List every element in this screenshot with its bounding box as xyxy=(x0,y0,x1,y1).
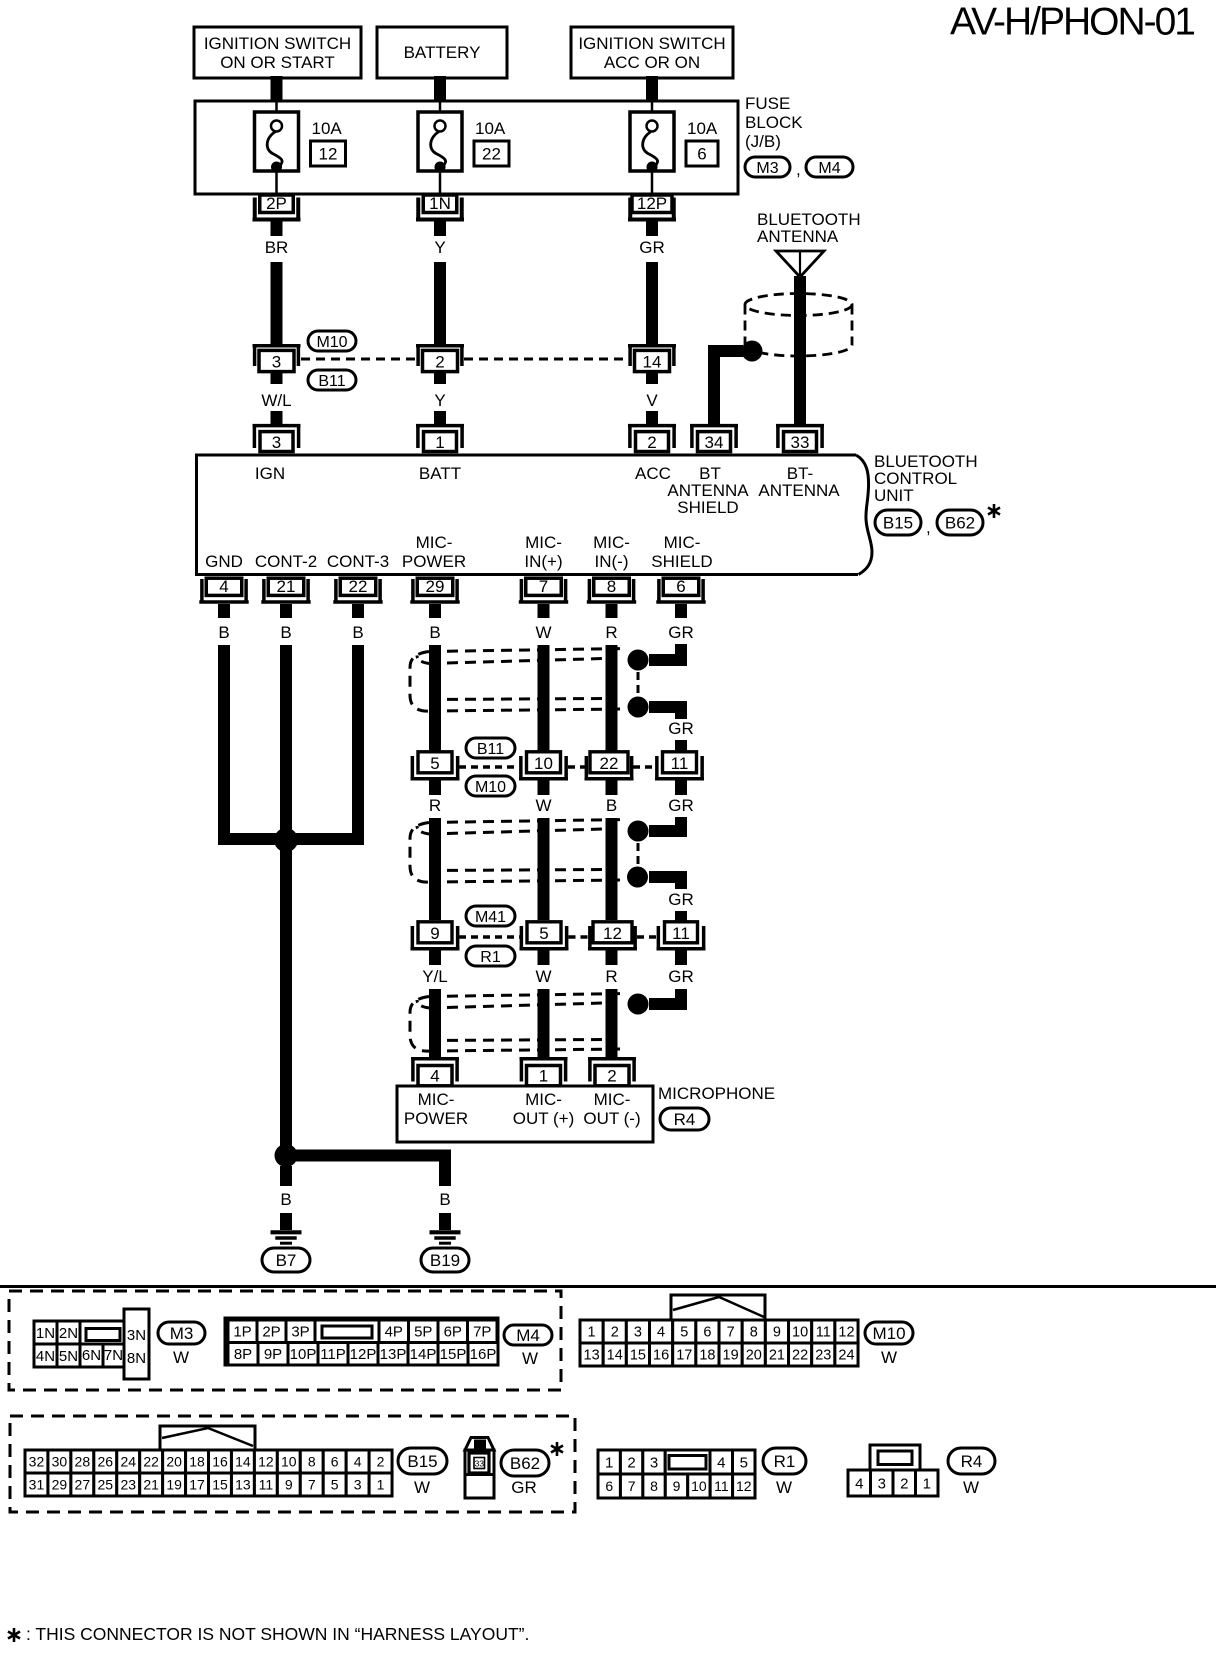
wire stub R below row1 xyxy=(429,781,441,796)
wire stub pin 681 xyxy=(675,604,687,618)
svg-text:2P: 2P xyxy=(266,194,287,213)
pin 34 BT antenna shield xyxy=(690,426,738,452)
node shield dot 1a xyxy=(628,650,649,671)
wire W row1-row2 xyxy=(538,818,550,920)
connector M4 xyxy=(806,157,853,177)
connector M3 oval 2 xyxy=(158,1322,205,1344)
pin 6 MIC-SHIELD xyxy=(656,577,705,602)
svg-text:5: 5 xyxy=(740,1454,748,1471)
label GND xyxy=(205,552,243,571)
pin 2 ACC xyxy=(628,426,676,452)
svg-text:W: W xyxy=(963,1478,979,1497)
node shield ground dot xyxy=(742,341,763,362)
svg-text:B: B xyxy=(606,796,617,815)
wire GND B xyxy=(224,645,281,839)
connector 2P xyxy=(253,194,301,220)
svg-text:B: B xyxy=(429,623,440,642)
wire shield 1b xyxy=(649,707,681,719)
svg-text:30: 30 xyxy=(52,1454,68,1470)
asterisk 1 xyxy=(988,504,1000,518)
label MIC-POWER mic xyxy=(404,1090,468,1128)
label B xyxy=(218,623,229,642)
svg-text:16: 16 xyxy=(653,1348,669,1364)
wire CONT-3 B xyxy=(291,645,358,839)
label BR xyxy=(265,238,289,257)
svg-text:17: 17 xyxy=(189,1477,205,1493)
label MIC-POWER xyxy=(402,533,466,571)
svg-text:GR: GR xyxy=(639,238,665,257)
svg-text:6P: 6P xyxy=(444,1324,462,1341)
svg-text:CONT-2: CONT-2 xyxy=(255,552,317,571)
wire to B19 ground xyxy=(286,1156,445,1187)
wire stub below 2 xyxy=(434,373,446,384)
wire stub B below row1 xyxy=(606,781,618,796)
dashed link 12-11 xyxy=(637,935,657,939)
comma 2 xyxy=(926,518,931,537)
label ACC xyxy=(635,464,671,483)
wire V xyxy=(646,411,658,425)
svg-text:BLOCK: BLOCK xyxy=(745,113,803,132)
svg-text:14P: 14P xyxy=(410,1346,437,1363)
svg-text:3: 3 xyxy=(272,353,281,372)
label MIC-OUT+ mic xyxy=(513,1090,575,1128)
svg-text:31: 31 xyxy=(29,1477,45,1493)
svg-text:33: 33 xyxy=(475,1459,485,1469)
svg-text:B: B xyxy=(218,623,229,642)
connector M10 oval 3 xyxy=(865,1322,913,1344)
svg-text:13P: 13P xyxy=(380,1346,407,1363)
wire GR down 2 xyxy=(675,989,687,999)
svg-text:34: 34 xyxy=(705,433,724,452)
wire battery to fuse block xyxy=(434,76,446,102)
svg-text:21: 21 xyxy=(143,1477,159,1493)
wire stub pin 435 xyxy=(429,604,441,618)
connector 3 harness M10/B11 xyxy=(253,346,301,372)
label BATT xyxy=(419,464,461,483)
svg-text:3: 3 xyxy=(272,433,281,452)
svg-text:M41: M41 xyxy=(475,909,506,926)
pin 4 GND xyxy=(199,577,248,602)
connector view M3 grid xyxy=(34,1309,149,1379)
connector 2 harness M10/B11 xyxy=(416,346,464,372)
label Y xyxy=(434,238,445,257)
svg-text:GR: GR xyxy=(668,719,694,738)
svg-text:IGN: IGN xyxy=(255,464,285,483)
svg-text:13: 13 xyxy=(584,1348,600,1364)
svg-text:6: 6 xyxy=(697,145,706,164)
wire shield 3 xyxy=(649,991,681,1004)
connector B11 oval 2 xyxy=(466,738,515,758)
svg-text:2: 2 xyxy=(611,1325,619,1341)
svg-text:7: 7 xyxy=(628,1478,636,1494)
node shield dot 2a xyxy=(628,821,649,842)
svg-text:BR: BR xyxy=(265,238,289,257)
connector B15 oval xyxy=(875,510,921,535)
svg-text:6N: 6N xyxy=(82,1347,101,1364)
svg-text:B15: B15 xyxy=(883,514,913,533)
svg-text:B7: B7 xyxy=(276,1251,297,1270)
wire col 435 to row1 xyxy=(429,645,441,752)
svg-text:7: 7 xyxy=(727,1325,735,1341)
svg-text:ANTENNA: ANTENNA xyxy=(758,481,840,500)
svg-text:10: 10 xyxy=(691,1478,707,1494)
svg-text:15: 15 xyxy=(212,1477,228,1493)
svg-text:14: 14 xyxy=(235,1454,251,1470)
connector 5 harness B11/M10 xyxy=(411,752,460,779)
label W M4 xyxy=(522,1349,538,1368)
svg-text:POWER: POWER xyxy=(402,552,466,571)
svg-text:8N: 8N xyxy=(127,1350,146,1367)
connector view B62 icon xyxy=(465,1438,494,1499)
label MICROPHONE xyxy=(658,1084,775,1103)
svg-text:3: 3 xyxy=(354,1477,362,1493)
svg-text:5P: 5P xyxy=(414,1324,432,1341)
label B right xyxy=(439,1190,450,1209)
connector B62 oval xyxy=(937,510,983,535)
svg-text:Y: Y xyxy=(434,391,445,410)
svg-text:29: 29 xyxy=(426,577,445,596)
svg-text:1N: 1N xyxy=(36,1325,55,1342)
dashed link 9-5 xyxy=(459,935,520,939)
wire common ground xyxy=(280,850,292,1146)
label GR row2 xyxy=(668,796,694,815)
wire BT antenna shield xyxy=(714,351,743,424)
wire shield 2a xyxy=(649,817,681,831)
svg-text:SHIELD: SHIELD xyxy=(677,498,738,517)
svg-text:GR: GR xyxy=(668,890,694,909)
connector B19 oval xyxy=(421,1248,469,1272)
svg-text:W: W xyxy=(881,1348,897,1367)
svg-text:B11: B11 xyxy=(318,373,345,390)
svg-text:6: 6 xyxy=(331,1454,339,1470)
svg-text:GND: GND xyxy=(205,552,243,571)
label R row2 xyxy=(429,796,441,815)
svg-text:OUT (+): OUT (+) xyxy=(513,1109,575,1128)
svg-text:ACC: ACC xyxy=(635,464,671,483)
label W row2 xyxy=(535,796,551,815)
svg-text:4: 4 xyxy=(430,1067,439,1086)
shield loop 1 dashed xyxy=(410,649,625,712)
wire stub below 14 xyxy=(646,373,658,384)
label GR xyxy=(668,623,694,642)
label W R1 xyxy=(776,1478,792,1497)
wire col 611.5 to row1 xyxy=(606,645,618,752)
footnote asterisk xyxy=(8,1628,20,1642)
svg-text:MIC-: MIC- xyxy=(525,533,562,552)
svg-text:2: 2 xyxy=(900,1475,908,1492)
wire ignition switch to fuse block xyxy=(271,76,283,102)
label W row3 xyxy=(535,967,551,986)
label W xyxy=(535,623,551,642)
wire GR to 11 row2 xyxy=(675,911,687,921)
svg-text:23: 23 xyxy=(815,1348,831,1364)
svg-text:IGNITION SWITCH: IGNITION SWITCH xyxy=(204,34,351,53)
pin 29 MIC-POWER xyxy=(410,577,459,602)
svg-text:MIC-: MIC- xyxy=(525,1090,562,1109)
connector 2 microphone xyxy=(588,1059,636,1086)
svg-text:AV-H/PHON-01: AV-H/PHON-01 xyxy=(950,1,1194,44)
node ground junction xyxy=(274,828,298,852)
svg-text:17: 17 xyxy=(676,1348,692,1364)
svg-text:R4: R4 xyxy=(961,1452,983,1471)
label W M3 xyxy=(173,1348,189,1367)
label R row3 xyxy=(605,967,617,986)
label GR row3 xyxy=(668,967,694,986)
footnote text xyxy=(26,1624,529,1644)
connector view R1 grid xyxy=(598,1450,755,1498)
separator line xyxy=(0,1285,1216,1288)
dashed link dots 1 xyxy=(637,672,640,696)
svg-text:8: 8 xyxy=(308,1454,316,1470)
svg-text:4: 4 xyxy=(657,1325,665,1341)
svg-text:1: 1 xyxy=(605,1454,613,1471)
svg-text:5N: 5N xyxy=(59,1348,78,1365)
svg-text:W/L: W/L xyxy=(261,391,291,410)
svg-text:21: 21 xyxy=(769,1348,785,1364)
svg-text:12: 12 xyxy=(603,924,622,943)
svg-text:GR: GR xyxy=(668,623,694,642)
wire GR from pin6 xyxy=(675,645,687,655)
svg-text:BATT: BATT xyxy=(419,464,461,483)
wire stub R below row2 xyxy=(606,951,618,966)
svg-text:28: 28 xyxy=(75,1454,91,1470)
connector B62 oval 2 xyxy=(501,1450,549,1476)
svg-text:4N: 4N xyxy=(36,1348,55,1365)
connector M10 oval xyxy=(308,331,356,351)
label B left xyxy=(280,1190,291,1209)
connector 4 microphone xyxy=(411,1059,459,1086)
svg-text:7P: 7P xyxy=(473,1324,491,1341)
svg-text:1: 1 xyxy=(377,1477,385,1493)
wire CONT-2 B xyxy=(280,645,292,830)
connector 22 harness B11/M10 xyxy=(585,752,634,779)
svg-text:B15: B15 xyxy=(407,1452,437,1471)
svg-text:,: , xyxy=(926,518,931,537)
wire BT antenna xyxy=(794,276,806,424)
wire GR down xyxy=(675,818,687,826)
svg-text:GR: GR xyxy=(668,967,694,986)
svg-text:14: 14 xyxy=(607,1348,623,1364)
svg-text:2P: 2P xyxy=(262,1324,280,1341)
wire B row1-row2 xyxy=(606,818,618,920)
svg-text:,: , xyxy=(796,160,801,179)
wire stub pin 224 xyxy=(218,604,230,618)
wire stub W below row2 xyxy=(538,951,550,966)
svg-text:12: 12 xyxy=(838,1325,854,1341)
label IGN xyxy=(255,464,285,483)
wire stub below 12P xyxy=(646,222,658,237)
connector R1 oval 2 xyxy=(763,1448,806,1474)
svg-text:2: 2 xyxy=(435,353,444,372)
svg-text:22: 22 xyxy=(349,577,368,596)
pin 8 MIC-IN- xyxy=(587,577,636,602)
svg-text:M10: M10 xyxy=(475,779,506,796)
connector 1 microphone xyxy=(520,1059,568,1086)
svg-text:32: 32 xyxy=(29,1454,45,1470)
svg-text:9P: 9P xyxy=(264,1346,282,1363)
label W B15 xyxy=(414,1478,430,1497)
svg-text:6: 6 xyxy=(605,1478,613,1494)
svg-text:5: 5 xyxy=(680,1325,688,1341)
svg-text:10: 10 xyxy=(792,1325,808,1341)
svg-text:7: 7 xyxy=(539,577,548,596)
node shield dot 3 xyxy=(628,994,649,1015)
svg-text:13: 13 xyxy=(235,1477,251,1493)
svg-text:24: 24 xyxy=(838,1348,854,1364)
asterisk 2 xyxy=(551,1442,563,1456)
svg-text:B: B xyxy=(280,623,291,642)
power source box BATTERY xyxy=(377,27,507,78)
svg-text:Y: Y xyxy=(434,238,445,257)
svg-text:UNIT: UNIT xyxy=(874,486,914,505)
title AV-H/PHON-01 xyxy=(950,1,1194,44)
svg-text:23: 23 xyxy=(120,1477,136,1493)
svg-text:1: 1 xyxy=(539,1067,548,1086)
svg-text:5: 5 xyxy=(430,754,439,773)
svg-text:2: 2 xyxy=(607,1067,616,1086)
label MIC-IN(+) xyxy=(524,533,562,571)
svg-text:10P: 10P xyxy=(290,1346,317,1363)
wire Y xyxy=(434,262,446,344)
fuse block J/B box xyxy=(195,101,738,194)
svg-text:R1: R1 xyxy=(480,949,501,966)
svg-text:1: 1 xyxy=(435,433,444,452)
label CONT-2 xyxy=(255,552,317,571)
connector B7 oval xyxy=(262,1248,310,1272)
svg-text:11: 11 xyxy=(816,1325,831,1341)
label Y/L row3 xyxy=(422,967,448,986)
svg-text:11P: 11P xyxy=(320,1346,346,1363)
connector 5 harness M41/R1 xyxy=(520,922,569,949)
wire R row2-mic xyxy=(606,989,618,1060)
connector M10 oval 2 xyxy=(466,776,515,796)
svg-text:3: 3 xyxy=(878,1475,886,1492)
svg-text:W: W xyxy=(173,1348,189,1367)
wire shield 1a xyxy=(649,644,681,660)
node ground junction 2 xyxy=(275,1144,298,1167)
svg-text:14: 14 xyxy=(643,353,662,372)
pin 22 CONT-3 xyxy=(333,577,382,602)
svg-text:4: 4 xyxy=(855,1475,863,1492)
pin 3 IGN xyxy=(253,426,301,452)
svg-text:8: 8 xyxy=(750,1325,758,1341)
wire W row2-mic xyxy=(538,989,550,1060)
shield loop 3 dashed xyxy=(410,994,625,1052)
dashed box M3 M4 xyxy=(9,1291,561,1390)
wire GR xyxy=(646,262,658,344)
wire GR to 11 xyxy=(675,740,687,751)
svg-text:B62: B62 xyxy=(510,1454,540,1473)
svg-text:POWER: POWER xyxy=(404,1109,468,1128)
connector view M10 grid xyxy=(580,1295,858,1366)
svg-text:4: 4 xyxy=(354,1454,362,1470)
wire col 543.5 to row1 xyxy=(538,645,550,752)
svg-text:1N: 1N xyxy=(429,194,451,213)
label MIC-OUT- mic xyxy=(583,1090,640,1128)
wire stub below 3 xyxy=(271,373,283,384)
svg-text:12: 12 xyxy=(319,145,338,164)
svg-text:8P: 8P xyxy=(234,1346,252,1363)
label Y 2 xyxy=(434,391,445,410)
svg-text:10A: 10A xyxy=(475,119,506,138)
svg-text:MICROPHONE: MICROPHONE xyxy=(658,1084,775,1103)
svg-text:W: W xyxy=(535,623,551,642)
svg-text:1: 1 xyxy=(923,1475,931,1492)
svg-text:OUT (-): OUT (-) xyxy=(583,1109,640,1128)
dashed link 5-12 xyxy=(569,935,589,939)
svg-text:21: 21 xyxy=(277,577,296,596)
node shield dot 2b xyxy=(627,867,648,888)
svg-text:B: B xyxy=(280,1190,291,1209)
fuse 10A 22 xyxy=(418,101,509,193)
wire stub pin 543.5 xyxy=(538,604,550,618)
svg-text:15P: 15P xyxy=(440,1346,467,1363)
svg-text:IGNITION SWITCH: IGNITION SWITCH xyxy=(578,34,725,53)
svg-text:5: 5 xyxy=(331,1477,339,1493)
shield loop 2 dashed xyxy=(410,820,625,883)
svg-text:W: W xyxy=(522,1349,538,1368)
svg-text:22: 22 xyxy=(482,145,501,164)
label V xyxy=(646,391,658,410)
wire B19 stub xyxy=(439,1213,451,1230)
connector R4 oval xyxy=(660,1108,709,1130)
svg-text:2: 2 xyxy=(647,433,656,452)
wire B7 stub xyxy=(280,1213,292,1230)
svg-text:4: 4 xyxy=(219,577,228,596)
svg-text:7N: 7N xyxy=(104,1347,123,1364)
wire R row1-row2 xyxy=(429,818,441,920)
wire Y/L row2-mic xyxy=(429,989,441,1060)
connector view R4 grid xyxy=(848,1445,938,1496)
svg-text:V: V xyxy=(646,391,658,410)
svg-text:33: 33 xyxy=(791,433,810,452)
label MIC-SHIELD xyxy=(651,533,712,571)
svg-text:MIC-: MIC- xyxy=(593,533,630,552)
wire stub W below row1 xyxy=(538,781,550,796)
svg-text:26: 26 xyxy=(98,1454,114,1470)
wire stub Y/L below row2 xyxy=(429,951,441,966)
svg-text:16: 16 xyxy=(212,1454,228,1470)
svg-text:B: B xyxy=(439,1190,450,1209)
svg-text:6: 6 xyxy=(703,1325,711,1341)
svg-text:R: R xyxy=(605,623,617,642)
svg-text:15: 15 xyxy=(630,1348,646,1364)
label MIC-IN(-) xyxy=(593,533,630,571)
svg-text:R1: R1 xyxy=(774,1452,796,1471)
label BT-ANTENNA xyxy=(758,464,840,500)
svg-text:ANTENNA: ANTENNA xyxy=(757,227,839,246)
label GR 2 xyxy=(668,890,694,909)
fuse 10A 12 xyxy=(255,101,346,193)
svg-text:R4: R4 xyxy=(674,1110,696,1129)
svg-text:20: 20 xyxy=(746,1348,762,1364)
svg-text:22: 22 xyxy=(792,1348,808,1364)
connector M41 oval xyxy=(466,906,515,926)
svg-text:3: 3 xyxy=(650,1454,658,1471)
svg-text:10: 10 xyxy=(281,1454,297,1470)
connector B15 oval 2 xyxy=(398,1448,447,1474)
svg-text:M10: M10 xyxy=(872,1324,905,1343)
svg-text:12: 12 xyxy=(258,1454,274,1470)
svg-text:MIC-: MIC- xyxy=(594,1090,631,1109)
ground symbol B19 xyxy=(430,1232,461,1243)
connector R1 oval xyxy=(466,946,515,966)
label B row2 xyxy=(606,796,617,815)
wire Y 2 xyxy=(434,411,446,425)
svg-text:W: W xyxy=(776,1478,792,1497)
svg-text:M4: M4 xyxy=(516,1326,540,1345)
svg-text:7: 7 xyxy=(308,1477,316,1493)
